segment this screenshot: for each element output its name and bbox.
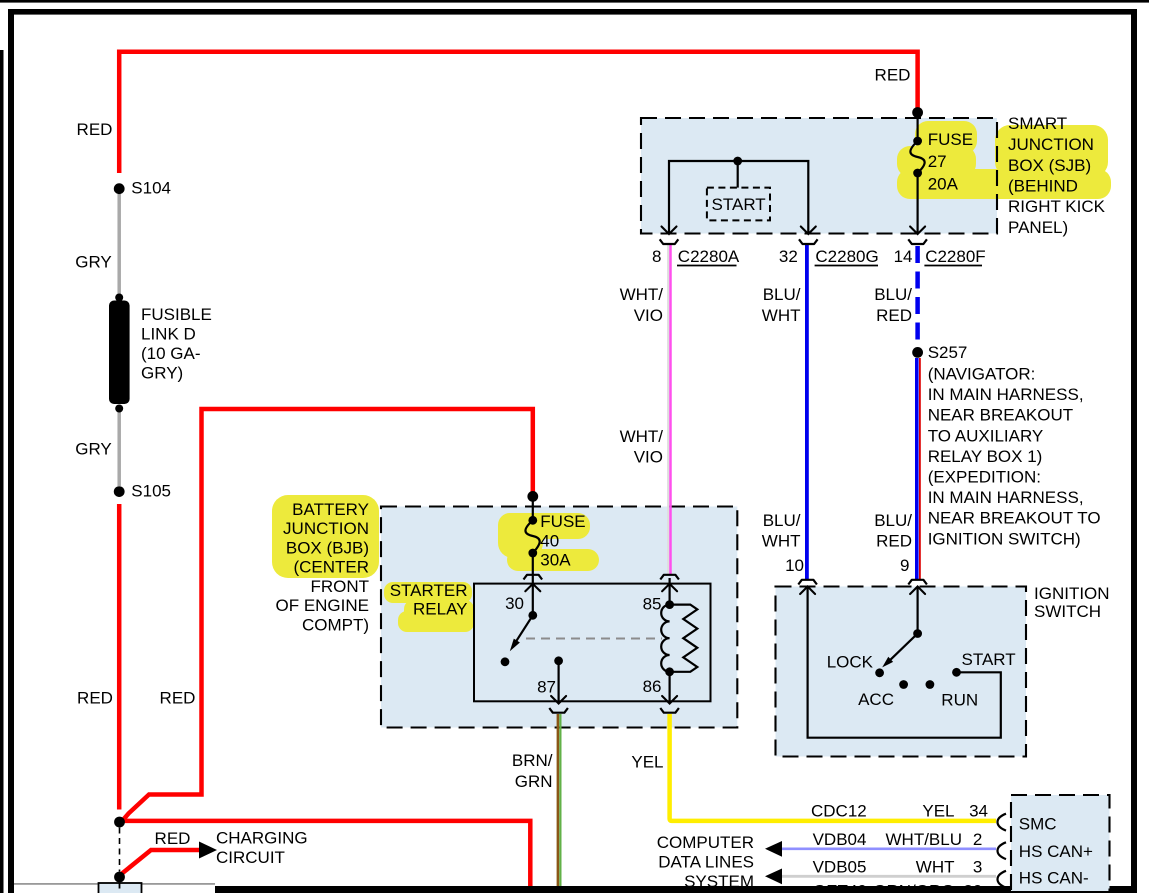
svg-text:GRY): GRY) <box>141 363 183 382</box>
svg-text:RELAY BOX 1): RELAY BOX 1) <box>928 447 1043 466</box>
svg-text:C2280F: C2280F <box>925 247 985 266</box>
svg-text:14: 14 <box>894 247 913 266</box>
svg-text:START: START <box>712 195 766 214</box>
svg-text:10: 10 <box>785 556 804 575</box>
svg-text:RIGHT KICK: RIGHT KICK <box>1008 197 1106 216</box>
svg-text:LINK D: LINK D <box>141 324 196 343</box>
svg-text:RED: RED <box>160 689 196 708</box>
svg-text:SMC: SMC <box>1019 814 1057 833</box>
svg-text:VIO: VIO <box>634 306 663 325</box>
svg-text:GRY: GRY <box>75 440 112 459</box>
svg-text:LOCK: LOCK <box>827 653 874 672</box>
svg-text:WHT/: WHT/ <box>620 427 664 446</box>
svg-text:BOX (BJB): BOX (BJB) <box>286 538 369 557</box>
svg-text:RED: RED <box>876 306 912 325</box>
svg-text:VIO: VIO <box>634 448 663 467</box>
svg-text:WHT: WHT <box>762 532 801 551</box>
svg-text:NEAR BREAKOUT: NEAR BREAKOUT <box>928 406 1073 425</box>
svg-text:DATA LINES: DATA LINES <box>658 853 754 872</box>
svg-text:(EXPEDITION:: (EXPEDITION: <box>928 468 1041 487</box>
svg-text:(NAVIGATOR:: (NAVIGATOR: <box>928 365 1036 384</box>
svg-text:YEL: YEL <box>922 802 954 821</box>
svg-text:30A: 30A <box>540 551 571 570</box>
svg-text:BRN/: BRN/ <box>512 751 553 770</box>
svg-text:RED: RED <box>77 689 113 708</box>
svg-text:VDB05: VDB05 <box>813 857 867 876</box>
svg-text:IN MAIN HARNESS,: IN MAIN HARNESS, <box>928 385 1084 404</box>
svg-text:BATTERY: BATTERY <box>292 500 369 519</box>
svg-text:C2280G: C2280G <box>815 247 878 266</box>
svg-text:WHT/BLU: WHT/BLU <box>886 830 963 849</box>
svg-text:WHT/: WHT/ <box>620 285 664 304</box>
svg-text:87: 87 <box>537 678 556 697</box>
svg-text:FUSIBLE: FUSIBLE <box>141 305 212 324</box>
svg-text:TO AUXILIARY: TO AUXILIARY <box>928 426 1044 445</box>
svg-text:27: 27 <box>928 152 947 171</box>
svg-text:GRY: GRY <box>75 252 112 271</box>
svg-text:RED: RED <box>875 66 911 85</box>
svg-text:HS CAN-: HS CAN- <box>1019 869 1089 888</box>
svg-text:RUN: RUN <box>941 691 978 710</box>
svg-text:START: START <box>962 650 1016 669</box>
svg-text:S105: S105 <box>131 482 171 501</box>
svg-text:9: 9 <box>900 556 909 575</box>
svg-text:S257: S257 <box>928 343 968 362</box>
svg-text:RELAY: RELAY <box>413 600 468 619</box>
svg-text:IGNITION SWITCH): IGNITION SWITCH) <box>928 529 1081 548</box>
svg-text:BLU/: BLU/ <box>763 511 801 530</box>
svg-text:COMPUTER: COMPUTER <box>657 833 754 852</box>
svg-text:(CENTER: (CENTER <box>293 558 369 577</box>
svg-text:40: 40 <box>540 531 559 550</box>
svg-text:BLU/: BLU/ <box>763 285 801 304</box>
svg-text:30: 30 <box>505 594 524 613</box>
svg-text:GRN: GRN <box>515 772 553 791</box>
svg-text:2: 2 <box>973 830 982 849</box>
svg-text:8: 8 <box>652 247 661 266</box>
svg-text:VDB04: VDB04 <box>813 830 867 849</box>
svg-text:32: 32 <box>779 247 798 266</box>
svg-text:COMPT): COMPT) <box>302 615 369 634</box>
svg-text:3: 3 <box>973 857 982 876</box>
svg-text:BOX (SJB): BOX (SJB) <box>1008 156 1091 175</box>
svg-text:ACC: ACC <box>858 690 894 709</box>
svg-text:STARTER: STARTER <box>390 581 468 600</box>
svg-text:34: 34 <box>969 802 988 821</box>
svg-text:BLU/: BLU/ <box>874 285 912 304</box>
svg-text:WHT: WHT <box>916 857 955 876</box>
svg-text:RED: RED <box>77 120 113 139</box>
svg-text:FRONT: FRONT <box>310 577 369 596</box>
svg-text:NEAR BREAKOUT TO: NEAR BREAKOUT TO <box>928 509 1101 528</box>
svg-text:IGNITION: IGNITION <box>1034 584 1110 603</box>
svg-text:20A: 20A <box>928 174 959 193</box>
svg-text:S104: S104 <box>131 179 171 198</box>
svg-text:JUNCTION: JUNCTION <box>1008 135 1094 154</box>
svg-text:(10 GA-: (10 GA- <box>141 344 201 363</box>
svg-text:86: 86 <box>643 677 662 696</box>
svg-text:JUNCTION: JUNCTION <box>283 519 369 538</box>
svg-text:85: 85 <box>643 595 662 614</box>
svg-text:PANEL): PANEL) <box>1008 218 1068 237</box>
svg-text:SMART: SMART <box>1008 114 1067 133</box>
svg-text:CIRCUIT: CIRCUIT <box>216 848 285 867</box>
svg-text:OF ENGINE: OF ENGINE <box>275 596 369 615</box>
svg-text:YEL: YEL <box>631 753 663 772</box>
svg-text:SYSTEM: SYSTEM <box>684 872 754 891</box>
svg-text:CDC12: CDC12 <box>811 802 867 821</box>
svg-text:IN MAIN HARNESS,: IN MAIN HARNESS, <box>928 488 1084 507</box>
svg-text:CHARGING: CHARGING <box>216 829 308 848</box>
svg-text:BLU/: BLU/ <box>874 511 912 530</box>
svg-text:RED: RED <box>155 829 191 848</box>
svg-text:FUSE: FUSE <box>928 130 973 149</box>
svg-text:C2280A: C2280A <box>678 247 740 266</box>
svg-text:HS CAN+: HS CAN+ <box>1019 842 1093 861</box>
svg-text:FUSE: FUSE <box>540 512 585 531</box>
svg-text:(BEHIND: (BEHIND <box>1008 177 1078 196</box>
svg-text:RED: RED <box>876 532 912 551</box>
svg-text:SWITCH: SWITCH <box>1034 602 1101 621</box>
svg-text:WHT: WHT <box>762 306 801 325</box>
